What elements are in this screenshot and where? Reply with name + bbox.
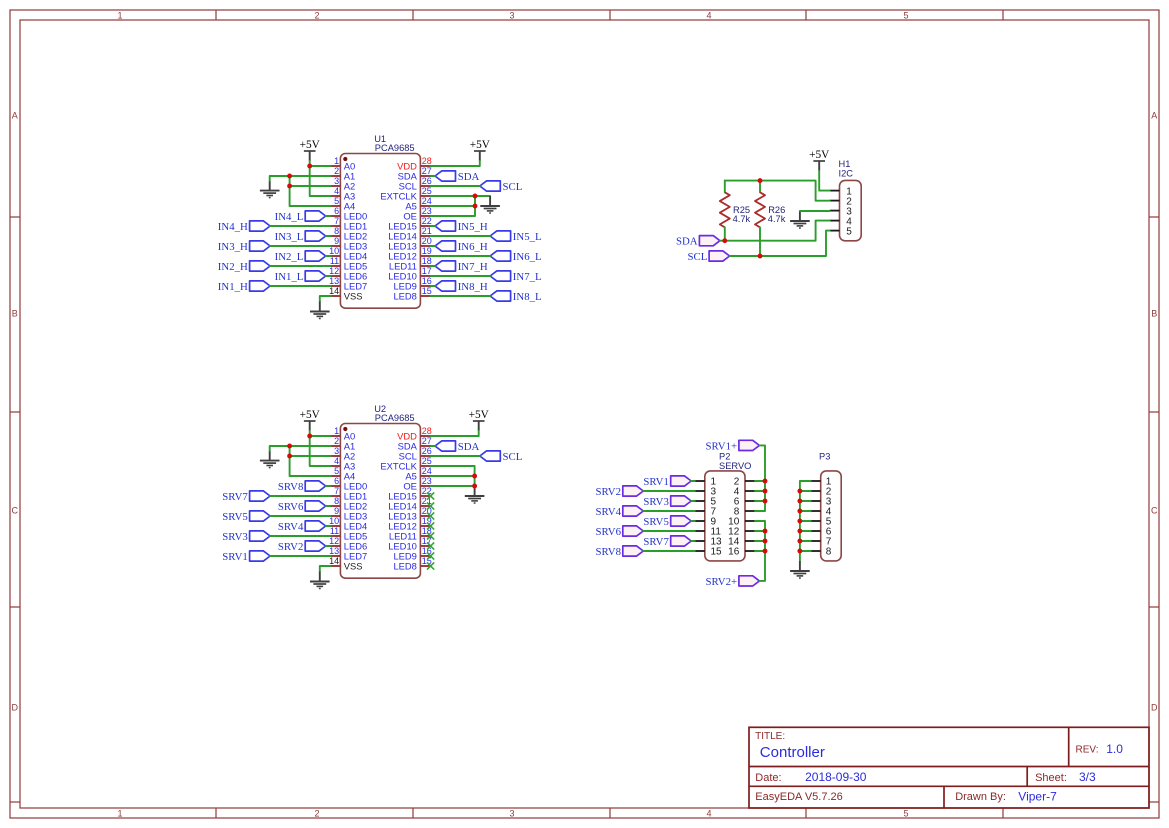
wire R25 bottom lead — [724, 227, 726, 240]
svg-text:SRV2: SRV2 — [595, 486, 621, 498]
junction A5 net — [472, 474, 477, 479]
P2 pins 9/10 — [695, 517, 755, 528]
svg-text:27: 27 — [422, 166, 432, 176]
U2 pin 15 LED8 — [393, 556, 431, 572]
U2 pin 13 LED7 — [329, 546, 367, 562]
wire U2 pin 24 — [431, 475, 475, 477]
U1 pin 27 SDA — [398, 166, 432, 182]
svg-text:25: 25 — [422, 456, 432, 466]
wire SRV3 to P2 — [691, 500, 695, 502]
U2 pin 9 LED3 — [331, 506, 368, 522]
U2 pin 22 LED15 — [388, 486, 432, 502]
no-connect U2 pin 22 — [427, 492, 434, 499]
svg-text:Sheet:: Sheet: — [1035, 772, 1067, 784]
U1 pin 26 SCL — [399, 176, 432, 192]
H1 pin 2 — [830, 196, 853, 207]
net flag SCL — [480, 181, 523, 193]
net flag SRV1 — [222, 551, 270, 563]
svg-text:2: 2 — [334, 436, 339, 446]
svg-text:3/3: 3/3 — [1079, 770, 1096, 784]
svg-text:3: 3 — [334, 176, 339, 186]
U2 pin 18 LED11 — [389, 526, 432, 542]
junction SCL/R26 — [758, 254, 763, 259]
svg-text:7: 7 — [334, 216, 339, 226]
U2 pin 14 VSS — [329, 556, 362, 572]
U2 pin 2 A1 — [331, 436, 356, 452]
net flag SCL — [480, 451, 523, 463]
svg-text:A: A — [12, 111, 18, 121]
U2 pin 24 A5 — [405, 466, 431, 482]
svg-text:SRV8: SRV8 — [278, 481, 304, 493]
svg-text:IN3_L: IN3_L — [275, 231, 304, 243]
svg-text:8: 8 — [826, 547, 832, 558]
wire — [270, 515, 331, 517]
svg-text:SRV1+: SRV1+ — [705, 440, 737, 452]
wire SCL to H1 pin 5 — [730, 231, 830, 256]
svg-text:8: 8 — [334, 226, 339, 236]
wire — [270, 225, 331, 227]
junction P3 pin 8 — [797, 549, 802, 554]
svg-text:PCA9685: PCA9685 — [375, 413, 415, 423]
svg-text:SRV6: SRV6 — [278, 501, 304, 513]
svg-text:SRV7: SRV7 — [643, 536, 669, 548]
svg-text:19: 19 — [422, 246, 432, 256]
svg-text:22: 22 — [422, 216, 432, 226]
U2 pin 26 SCL — [399, 446, 432, 462]
wire +5V to H1 pin 1 — [819, 171, 830, 191]
svg-text:IN8_H: IN8_H — [458, 281, 488, 293]
no-connect U2 pin 21 — [427, 502, 434, 509]
wire — [326, 215, 331, 217]
junction P3 pin 7 — [797, 539, 802, 544]
wire U1 pin 23 OE — [431, 196, 475, 216]
no-connect U2 pin 17 — [427, 542, 434, 549]
header P3 body — [819, 452, 841, 561]
svg-text:D: D — [1151, 703, 1158, 713]
svg-text:17: 17 — [422, 266, 432, 276]
U1 pin 11 LED5 — [330, 256, 367, 272]
wire pullup rail to H1 pin 2 — [725, 181, 830, 201]
P2 pins 7/8 — [695, 507, 755, 518]
wire — [270, 265, 331, 267]
junction pin 6 — [763, 499, 768, 504]
junction SDA/R25 — [722, 238, 727, 243]
U1 pin 14 VSS — [329, 286, 362, 302]
H1 pin 1 — [830, 186, 853, 197]
wire — [431, 265, 435, 267]
U1 pin 2 A1 — [331, 166, 356, 182]
svg-text:6: 6 — [334, 476, 339, 486]
svg-text:4: 4 — [706, 11, 711, 21]
+5V power — [470, 139, 491, 161]
svg-text:SRV1: SRV1 — [222, 551, 248, 563]
svg-text:B: B — [1151, 309, 1157, 319]
svg-text:+5V: +5V — [809, 149, 830, 161]
svg-text:1: 1 — [117, 11, 122, 21]
svg-text:4: 4 — [334, 186, 339, 196]
resistor R26 4.7k zigzag — [755, 192, 786, 227]
wire R26 bottom lead to SCL — [759, 227, 761, 256]
svg-text:2: 2 — [334, 166, 339, 176]
svg-text:11: 11 — [330, 526, 339, 536]
net flag SRV7 — [643, 536, 691, 548]
svg-text:7: 7 — [334, 486, 339, 496]
svg-text:SDA: SDA — [458, 171, 480, 183]
P3 pin 6 — [811, 527, 832, 538]
wire SRV2 to P2 — [643, 490, 695, 492]
svg-text:P3: P3 — [819, 452, 830, 462]
U1 pin 4 A3 — [331, 186, 356, 202]
svg-text:24: 24 — [422, 466, 432, 476]
wire — [270, 555, 331, 557]
net flag IN7_H — [435, 261, 488, 273]
wire to U1 pin 3 — [290, 176, 331, 186]
no-connect U2 pin 15 — [427, 562, 434, 569]
U2 pin 25 EXTCLK — [380, 456, 431, 472]
svg-text:SRV2: SRV2 — [278, 541, 304, 553]
wire SRV1+ bus down to pin 8 — [755, 445, 765, 511]
P3 pin 2 — [811, 487, 832, 498]
wire +5V to A0 node — [309, 431, 311, 436]
wire — [431, 285, 435, 287]
P2 pins 3/4 — [695, 487, 755, 498]
U1 pin 7 LED1 — [331, 216, 368, 232]
svg-text:23: 23 — [422, 206, 432, 216]
wire U2 EXTCLK down — [431, 466, 475, 486]
wire U1 pin 24 — [431, 205, 475, 207]
svg-text:18: 18 — [422, 256, 432, 266]
svg-text:3: 3 — [509, 809, 514, 819]
U2 pin 28 VDD — [397, 426, 432, 442]
svg-text:5: 5 — [334, 196, 339, 206]
svg-text:LED8: LED8 — [393, 291, 416, 302]
svg-text:4: 4 — [334, 456, 339, 466]
junction A1 net — [287, 444, 292, 449]
svg-text:SRV4: SRV4 — [595, 506, 621, 518]
U2 pin 19 LED12 — [388, 516, 432, 532]
header P2 SERVO body — [705, 452, 752, 561]
svg-text:24: 24 — [422, 196, 432, 206]
junction +5V/A0 — [307, 164, 312, 169]
U1 pin 13 LED7 — [329, 276, 367, 292]
U2 pin 8 LED2 — [331, 496, 368, 512]
svg-text:25: 25 — [422, 186, 432, 196]
wire U1 VSS to ground — [320, 296, 331, 302]
U2 pin 16 LED9 — [393, 546, 431, 562]
junction pin 12 — [763, 529, 768, 534]
wire — [326, 255, 331, 257]
wire R25 top lead — [724, 181, 726, 193]
U1 pin 19 LED12 — [388, 246, 432, 262]
svg-text:5: 5 — [846, 226, 852, 237]
svg-text:28: 28 — [422, 156, 432, 166]
wire ground to U1 pin 2 — [270, 176, 331, 181]
U1 pin 10 LED4 — [329, 246, 367, 262]
wire +5V to U2 pin 4 — [310, 436, 331, 466]
wire +5V to A0 node — [309, 161, 311, 166]
wire to U1 pin 1 — [310, 165, 331, 167]
svg-text:SRV1: SRV1 — [643, 476, 669, 488]
net flag SRV5 — [643, 516, 691, 528]
wire SDA to H1 pin 4 — [720, 221, 830, 241]
svg-text:IN2_L: IN2_L — [275, 251, 304, 263]
svg-text:1: 1 — [117, 809, 122, 819]
svg-text:IN6_L: IN6_L — [513, 251, 542, 263]
svg-text:6: 6 — [334, 206, 339, 216]
junction P3 pin 6 — [797, 529, 802, 534]
ground at U2 VSS — [310, 572, 330, 589]
wire — [326, 485, 331, 487]
ground at U2 EXTCLK/A5/OE — [465, 486, 485, 503]
net flag SRV6 — [278, 501, 326, 513]
U2 pin 7 LED1 — [331, 486, 368, 502]
net flag IN3_H — [218, 241, 270, 253]
net flag IN4_H — [218, 221, 270, 233]
junction pin 4 — [763, 489, 768, 494]
svg-text:26: 26 — [422, 446, 432, 456]
IC U1 PCA9685 body — [340, 134, 420, 308]
svg-text:I2C: I2C — [839, 169, 854, 179]
svg-text:SCL: SCL — [687, 251, 707, 263]
junction P3 pin 2 — [797, 489, 802, 494]
junction P3 pin 5 — [797, 519, 802, 524]
net flag SRV3 — [222, 531, 270, 543]
P3 pin 8 — [811, 547, 832, 558]
svg-text:15: 15 — [711, 547, 723, 558]
wire — [270, 285, 331, 287]
U2 pin 11 LED5 — [330, 526, 367, 542]
P3 pin 5 — [811, 517, 832, 528]
net flag IN6_H — [435, 241, 488, 253]
U2 pin 20 LED13 — [388, 506, 432, 522]
svg-text:VSS: VSS — [344, 291, 363, 302]
net flag IN7_L — [490, 271, 541, 283]
wire P2 pin 16 — [755, 550, 765, 552]
svg-text:IN6_H: IN6_H — [458, 241, 488, 253]
U1 pin 18 LED11 — [389, 256, 432, 272]
svg-text:IN5_L: IN5_L — [513, 231, 542, 243]
junction A1 net — [287, 174, 292, 179]
svg-text:IN4_H: IN4_H — [218, 221, 248, 233]
wire P2 pin 4 — [755, 490, 765, 492]
wire P3 pin 7 — [800, 540, 811, 542]
ground at U2 A1/A2/A4 — [260, 451, 280, 468]
svg-text:Viper-7: Viper-7 — [1018, 789, 1057, 803]
no-connect U2 pin 19 — [427, 522, 434, 529]
wire SRV6 to P2 — [643, 530, 695, 532]
U2 pin 21 LED14 — [388, 496, 432, 512]
svg-text:+5V: +5V — [469, 409, 490, 421]
U1 pin 8 LED2 — [331, 226, 368, 242]
junction pin 2 — [763, 479, 768, 484]
net flag IN1_H — [218, 281, 270, 293]
net flag IN8_H — [435, 281, 488, 293]
wire — [431, 175, 435, 177]
net flag IN5_H — [435, 221, 488, 233]
U1 pin 28 VDD — [397, 156, 432, 172]
U2 pin 12 LED6 — [329, 536, 367, 552]
svg-text:SRV5: SRV5 — [643, 516, 669, 528]
wire to U2 pin 1 — [310, 435, 331, 437]
title block — [749, 727, 1149, 808]
wire — [326, 275, 331, 277]
svg-text:5: 5 — [334, 466, 339, 476]
svg-text:IN2_H: IN2_H — [218, 261, 248, 273]
U1 pin 9 LED3 — [331, 236, 368, 252]
wire — [270, 535, 331, 537]
wire — [431, 185, 480, 187]
+5V power — [809, 149, 830, 171]
U2 pin 27 SDA — [398, 436, 432, 452]
U2 pin 23 OE — [403, 476, 431, 492]
svg-text:SRV7: SRV7 — [222, 491, 248, 503]
net flag SCL — [687, 251, 729, 263]
svg-text:IN7_H: IN7_H — [458, 261, 488, 273]
svg-text:SRV4: SRV4 — [278, 521, 304, 533]
net flag SRV8 — [278, 481, 326, 493]
net flag SRV1 — [643, 476, 691, 488]
net flag SRV2 — [278, 541, 326, 553]
svg-text:EasyEDA V5.7.26: EasyEDA V5.7.26 — [755, 791, 842, 803]
wire — [431, 245, 435, 247]
U1 pin 16 LED9 — [393, 276, 431, 292]
net flag SRV4 — [595, 506, 643, 518]
net flag IN2_H — [218, 261, 270, 273]
U1 pin 21 LED14 — [388, 226, 432, 242]
ground at U1 EXTCLK/A5/OE — [480, 196, 500, 213]
svg-text:20: 20 — [422, 236, 432, 246]
junction OE net — [472, 484, 477, 489]
net flag SRV2+ — [705, 576, 759, 588]
U2 pin 4 A3 — [331, 456, 356, 472]
wire P2 pin 14 — [755, 540, 765, 542]
svg-text:Drawn By:: Drawn By: — [955, 791, 1006, 803]
net flag IN3_L — [275, 231, 326, 243]
wire SRV1 to P2 — [691, 480, 695, 482]
svg-text:5: 5 — [903, 11, 908, 21]
svg-text:26: 26 — [422, 176, 432, 186]
U1 pin 5 A4 — [331, 196, 356, 212]
wire P3 pin 5 — [800, 520, 811, 522]
U1 pin 23 OE — [403, 206, 431, 222]
wire to U2 pin 3 — [290, 446, 331, 456]
svg-text:SRV5: SRV5 — [222, 511, 248, 523]
svg-text:C: C — [12, 506, 19, 516]
svg-text:21: 21 — [422, 226, 432, 236]
no-connect U2 pin 18 — [427, 532, 434, 539]
svg-text:10: 10 — [329, 516, 339, 526]
U2 pin 10 LED4 — [329, 516, 367, 532]
+5V power — [300, 139, 321, 161]
U2 pin 5 A4 — [331, 466, 356, 482]
U1 pin 6 LED0 — [331, 206, 368, 222]
P3 pin 3 — [811, 497, 832, 508]
wire — [431, 225, 435, 227]
svg-text:REV:: REV: — [1076, 744, 1099, 755]
title block texts — [755, 731, 1123, 804]
wire — [326, 235, 331, 237]
junction A5 net — [473, 204, 478, 209]
net flag SRV1+ — [705, 440, 759, 452]
P3 pin 7 — [811, 537, 832, 548]
U1 pin 3 A2 — [331, 176, 356, 192]
svg-text:9: 9 — [334, 506, 339, 516]
junction EXTCLK net — [473, 194, 478, 199]
wire — [270, 245, 331, 247]
net flag SDA — [435, 441, 480, 453]
ground at H1 pin 3 — [790, 211, 810, 228]
svg-text:10: 10 — [329, 246, 339, 256]
net flag SRV8 — [595, 546, 643, 558]
svg-text:5: 5 — [903, 809, 908, 819]
wire — [431, 455, 480, 457]
svg-text:SRV6: SRV6 — [595, 526, 621, 538]
wire SRV4 to P2 — [643, 510, 695, 512]
U2 pin 17 LED10 — [388, 536, 432, 552]
svg-text:SCL: SCL — [503, 451, 523, 463]
svg-text:A: A — [1151, 111, 1157, 121]
svg-text:B: B — [12, 309, 18, 319]
svg-text:11: 11 — [330, 256, 339, 266]
wire H1 pin 3 to ground — [800, 210, 830, 212]
wire P3 pin 8 — [800, 550, 811, 552]
svg-text:Date:: Date: — [755, 772, 781, 784]
wire — [326, 505, 331, 507]
IC U2 PCA9685 body — [340, 404, 420, 578]
svg-text:+5V: +5V — [470, 139, 491, 151]
wire — [431, 295, 491, 297]
junction pin 16 — [763, 549, 768, 554]
svg-text:8: 8 — [334, 496, 339, 506]
svg-text:SDA: SDA — [676, 236, 698, 248]
ground at U1 VSS — [310, 302, 330, 319]
P2 pins 1/2 — [695, 477, 755, 488]
svg-text:13: 13 — [329, 276, 339, 286]
wire P3 pin 4 — [800, 510, 811, 512]
wire P3 ground bus — [800, 481, 811, 561]
svg-text:3: 3 — [334, 446, 339, 456]
svg-text:15: 15 — [422, 286, 432, 296]
U2 pin 6 LED0 — [331, 476, 368, 492]
svg-text:IN8_L: IN8_L — [513, 291, 542, 303]
net flag IN2_L — [275, 251, 326, 263]
P3 pin 4 — [811, 507, 832, 518]
svg-text:SRV3: SRV3 — [643, 496, 669, 508]
net flag IN6_L — [490, 251, 541, 263]
net flag SRV6 — [595, 526, 643, 538]
svg-text:+5V: +5V — [300, 139, 321, 151]
svg-text:IN4_L: IN4_L — [275, 211, 304, 223]
net flag SRV5 — [222, 511, 270, 523]
svg-text:3: 3 — [509, 11, 514, 21]
svg-text:1: 1 — [334, 156, 339, 166]
wire ground to U2 pin 2 — [270, 446, 331, 451]
U2 pin 3 A2 — [331, 446, 356, 462]
U1 pin 25 EXTCLK — [380, 186, 431, 202]
junction +5V/A0 — [307, 434, 312, 439]
resistor R25 4.7k zigzag — [720, 192, 751, 227]
svg-text:SRV8: SRV8 — [595, 546, 621, 558]
svg-text:LED8: LED8 — [393, 561, 416, 572]
svg-text:2: 2 — [314, 11, 319, 21]
svg-text:9: 9 — [334, 236, 339, 246]
wire U2 VSS to ground — [320, 566, 331, 572]
svg-text:SCL: SCL — [503, 181, 523, 193]
svg-text:23: 23 — [422, 476, 432, 486]
svg-text:Controller: Controller — [760, 744, 825, 761]
+5V power — [469, 409, 490, 431]
no-connect U2 pin 20 — [427, 512, 434, 519]
